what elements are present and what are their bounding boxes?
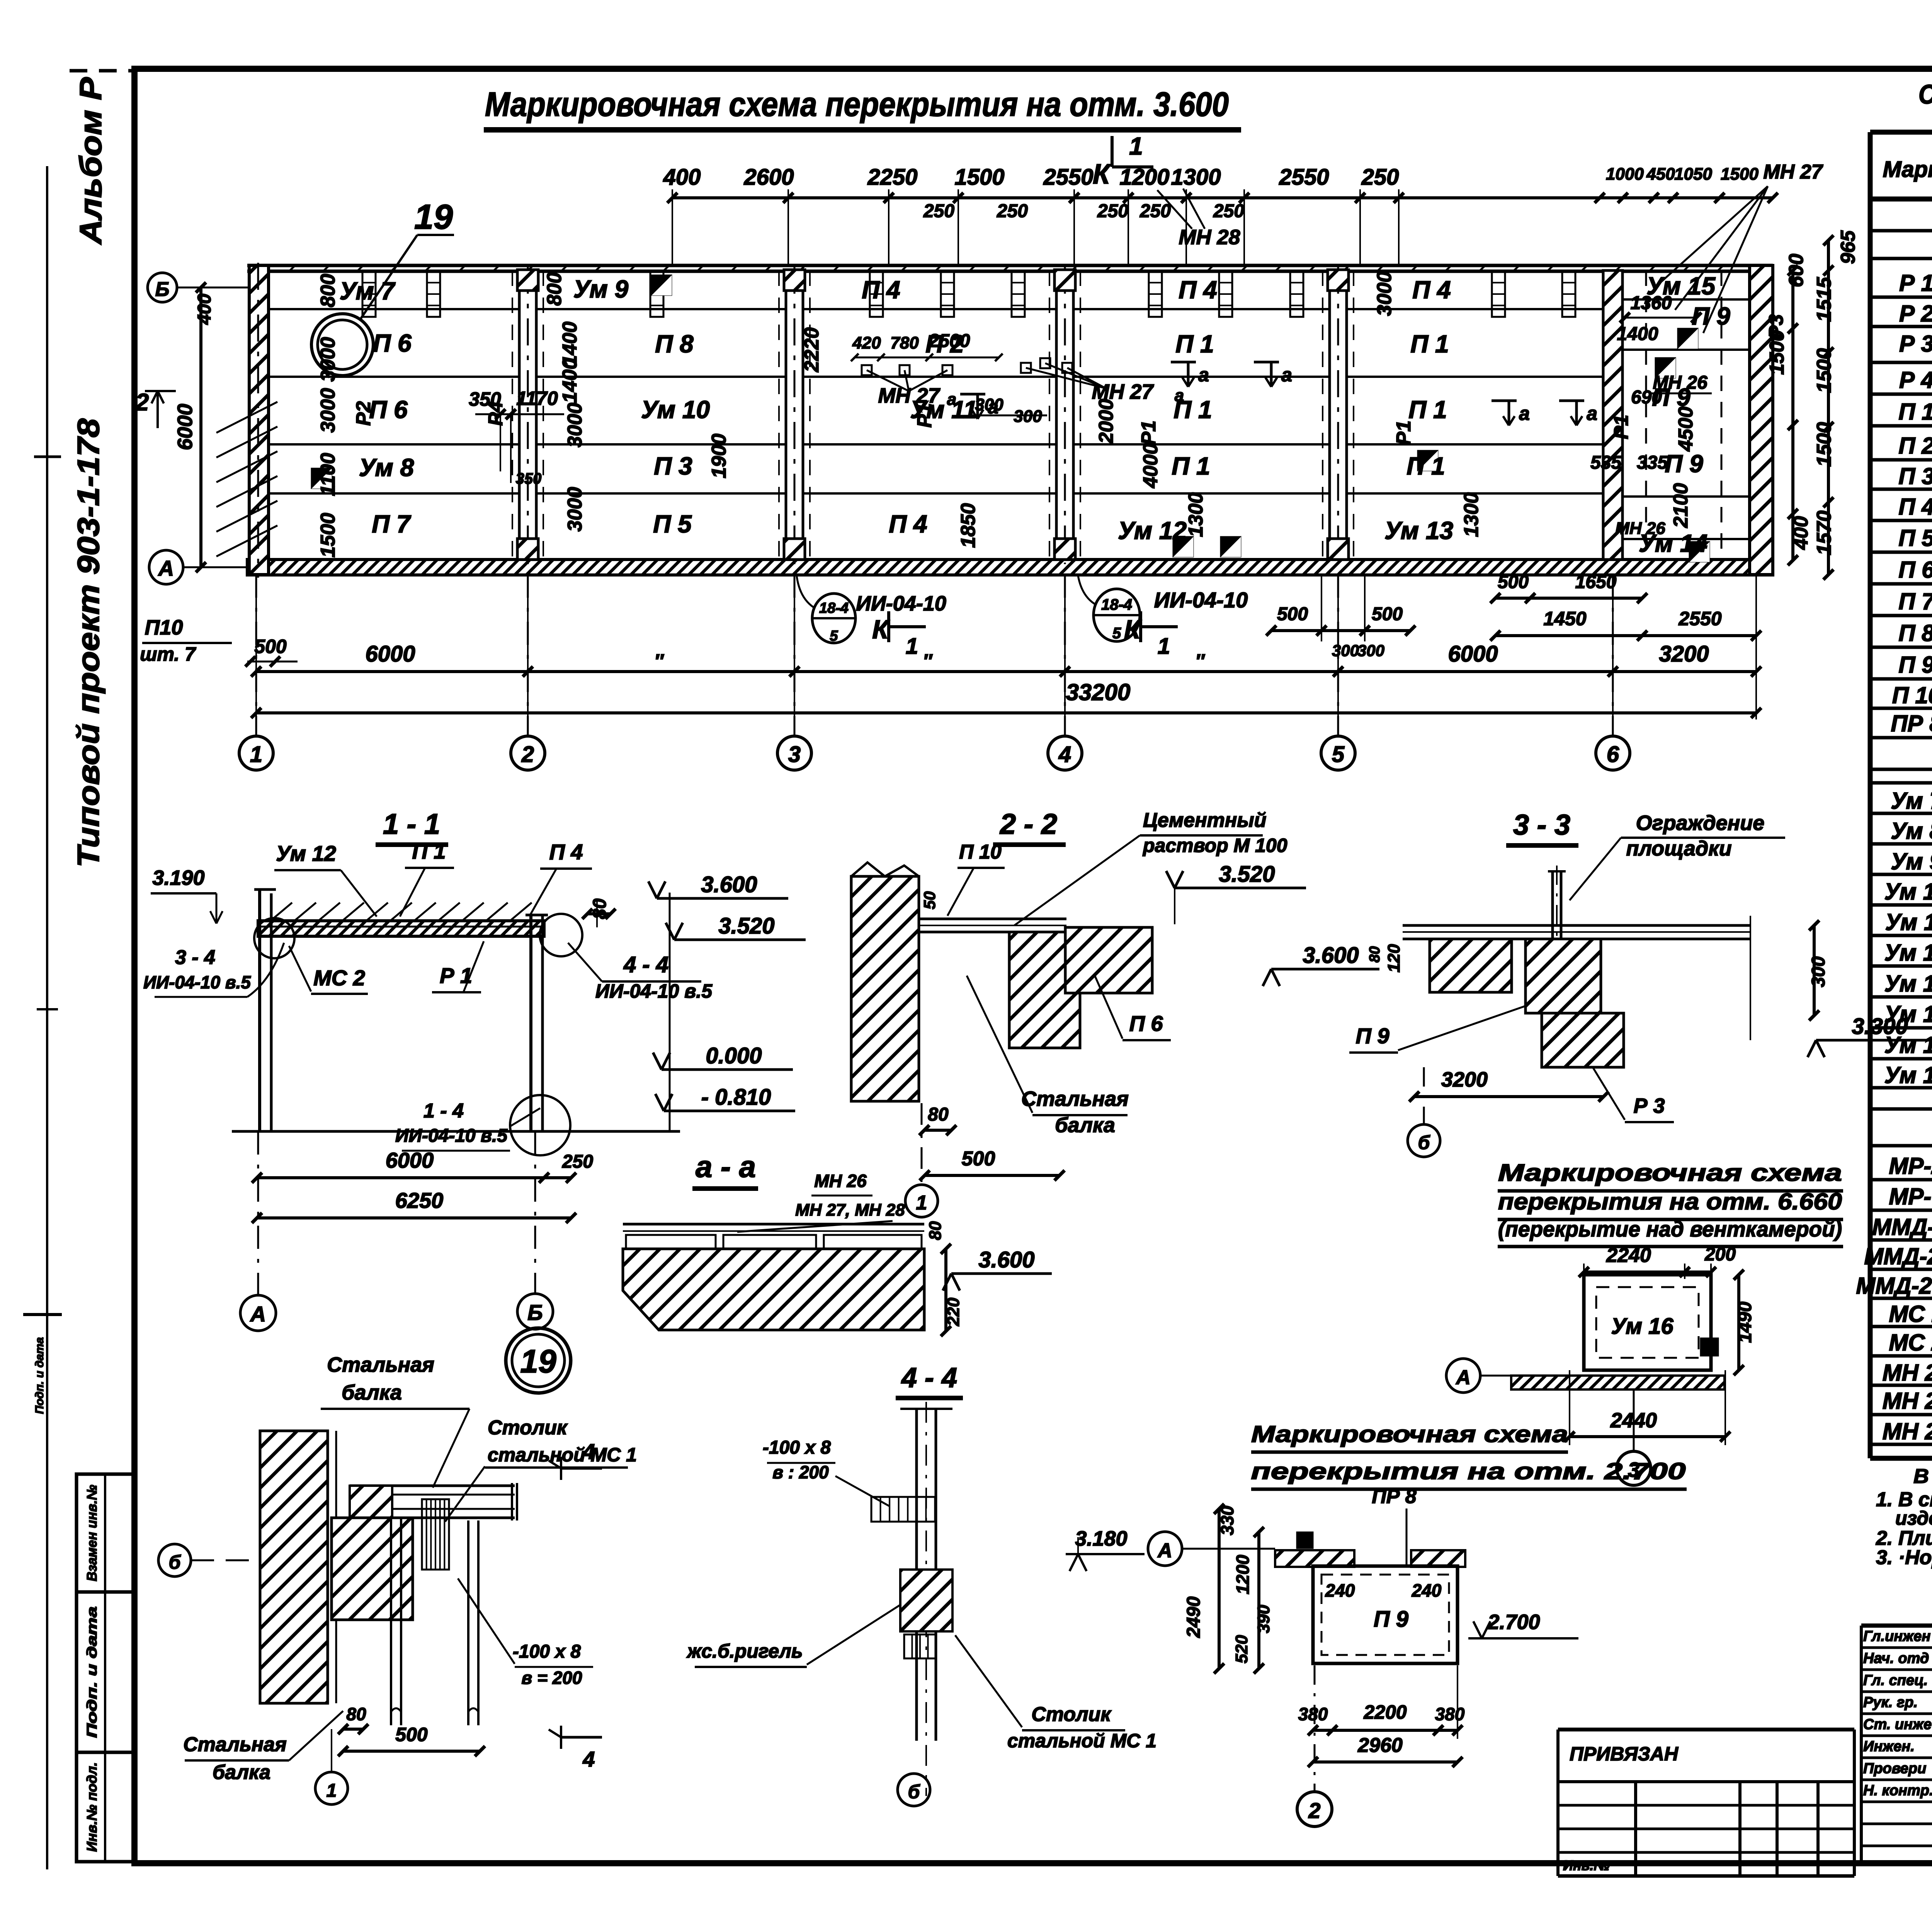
svg-text:350: 350 bbox=[469, 388, 501, 410]
svg-text:Ум 7: Ум 7 bbox=[1891, 788, 1932, 814]
svg-text:2 - 2: 2 - 2 bbox=[999, 808, 1057, 840]
svg-text:МН 26: МН 26 bbox=[814, 1171, 867, 1191]
svg-text:стальной МС 1: стальной МС 1 bbox=[1007, 1730, 1156, 1752]
svg-text:400: 400 bbox=[194, 294, 215, 325]
svg-text:Ум 9: Ум 9 bbox=[573, 275, 629, 303]
svg-text:Р1: Р1 bbox=[1138, 420, 1160, 445]
svg-text:Ум 13: Ум 13 bbox=[1884, 971, 1932, 997]
svg-text:Б: Б bbox=[527, 1300, 543, 1325]
svg-text:Р1: Р1 bbox=[1393, 420, 1415, 445]
svg-text:Типовой проект 903-1-178: Типовой проект 903-1-178 bbox=[71, 418, 105, 867]
svg-text:Ум 12: Ум 12 bbox=[1118, 517, 1187, 544]
svg-text:- 0.810: - 0.810 bbox=[701, 1085, 771, 1110]
svg-text:1300: 1300 bbox=[1185, 492, 1207, 537]
svg-text:6: 6 bbox=[1607, 742, 1619, 767]
svg-text:ИИ-04-10: ИИ-04-10 bbox=[1154, 588, 1248, 612]
svg-text:П 9: П 9 bbox=[1374, 1607, 1408, 1632]
svg-text:33200: 33200 bbox=[1066, 679, 1131, 705]
svg-text:Ограждение: Ограждение bbox=[1636, 811, 1765, 835]
svg-text:350: 350 bbox=[516, 470, 542, 487]
svg-text:Р 3: Р 3 bbox=[1899, 331, 1932, 357]
svg-text:420: 420 bbox=[852, 333, 881, 352]
svg-text:П 9: П 9 bbox=[1356, 1024, 1389, 1048]
svg-text:1500: 1500 bbox=[954, 165, 1004, 190]
svg-text:2600: 2600 bbox=[743, 165, 794, 190]
svg-text:Ум 10: Ум 10 bbox=[641, 396, 710, 423]
svg-text:3.600: 3.600 bbox=[978, 1247, 1034, 1272]
svg-text:1: 1 bbox=[906, 634, 918, 659]
svg-text:780: 780 bbox=[890, 333, 919, 352]
svg-text:П 4: П 4 bbox=[862, 276, 900, 304]
svg-text:б: б bbox=[908, 1781, 921, 1803]
svg-text:240: 240 bbox=[1412, 1580, 1442, 1600]
svg-text:стальной МС 1: стальной МС 1 bbox=[488, 1444, 637, 1466]
svg-text:1500: 1500 bbox=[1813, 422, 1835, 467]
svg-text:в : 200: в : 200 bbox=[772, 1462, 829, 1482]
svg-text:2550: 2550 bbox=[1279, 165, 1329, 190]
svg-text:П 2: П 2 bbox=[1898, 433, 1932, 459]
svg-text:ММД-20Л: ММД-20Л bbox=[1864, 1243, 1932, 1269]
svg-text:4: 4 bbox=[582, 1747, 595, 1771]
svg-text:4000: 4000 bbox=[1139, 443, 1162, 488]
svg-text:0.000: 0.000 bbox=[706, 1043, 762, 1068]
svg-text:300: 300 bbox=[1332, 641, 1359, 660]
svg-text:Н. контр.: Н. контр. bbox=[1863, 1782, 1932, 1799]
svg-text:Стальная: Стальная bbox=[1021, 1087, 1129, 1111]
svg-text:2.700: 2.700 bbox=[1487, 1611, 1540, 1634]
svg-text:Ум 7: Ум 7 bbox=[340, 277, 396, 305]
svg-text:Р 2: Р 2 bbox=[1899, 301, 1932, 327]
svg-text:Ум 16: Ум 16 bbox=[1611, 1314, 1673, 1339]
svg-text:3 - 3: 3 - 3 bbox=[1513, 809, 1570, 841]
svg-text:А: А bbox=[158, 556, 174, 580]
svg-text:2490: 2490 bbox=[1184, 1596, 1204, 1638]
svg-text:Рук. гр.: Рук. гр. bbox=[1863, 1694, 1918, 1711]
svg-text:А: А bbox=[1455, 1366, 1471, 1389]
svg-text:П 1: П 1 bbox=[1172, 452, 1210, 480]
svg-text:а: а bbox=[1175, 386, 1184, 405]
svg-text:800: 800 bbox=[543, 272, 566, 306]
svg-text:ИИ-04-10: ИИ-04-10 bbox=[856, 592, 946, 615]
svg-text:балка: балка bbox=[342, 1381, 402, 1404]
svg-text:Ум 16: Ум 16 bbox=[1884, 1062, 1932, 1088]
svg-text:П 4: П 4 bbox=[1179, 276, 1217, 304]
svg-text:П 6: П 6 bbox=[373, 329, 412, 357]
svg-text:3: 3 bbox=[788, 742, 801, 767]
svg-text:1: 1 bbox=[327, 1781, 337, 1801]
svg-text:3. ·Нормативная нагрузка на: 3. ·Нормативная нагрузка на перекрытие: bbox=[1876, 1546, 1932, 1569]
svg-text:ИИ-04-10 в.5: ИИ-04-10 в.5 bbox=[395, 1126, 508, 1146]
svg-text:П 10: П 10 bbox=[1892, 682, 1932, 708]
svg-text:1850: 1850 bbox=[957, 503, 980, 548]
svg-text:б: б bbox=[169, 1551, 182, 1573]
svg-text:1: 1 bbox=[1129, 132, 1143, 160]
svg-text:Р3: Р3 bbox=[1765, 314, 1787, 339]
svg-text:Б: Б bbox=[155, 278, 170, 301]
svg-text:3000: 3000 bbox=[317, 388, 339, 433]
svg-text:Взамен инв.№: Взамен инв.№ bbox=[84, 1485, 100, 1582]
svg-text:П 8: П 8 bbox=[655, 330, 694, 358]
svg-text:Нач. отд: Нач. отд bbox=[1863, 1650, 1929, 1667]
svg-text:Ум 15: Ум 15 bbox=[1884, 1032, 1932, 1058]
svg-text:80: 80 bbox=[928, 1104, 949, 1125]
svg-text:6000: 6000 bbox=[1448, 641, 1498, 667]
svg-text:Альбом Р: Альбом Р bbox=[73, 77, 108, 245]
svg-text:П 4: П 4 bbox=[1412, 276, 1451, 304]
svg-text:2000: 2000 bbox=[1095, 399, 1117, 444]
svg-text:МН 27: МН 27 bbox=[878, 384, 940, 407]
svg-text:3200: 3200 bbox=[1441, 1068, 1488, 1091]
svg-text:4500: 4500 bbox=[1675, 406, 1697, 452]
svg-text:1400: 1400 bbox=[559, 358, 581, 403]
svg-text:а: а bbox=[947, 390, 956, 409]
svg-text:250: 250 bbox=[923, 201, 954, 221]
svg-text:П 9: П 9 bbox=[1898, 652, 1932, 678]
svg-text:3.180: 3.180 bbox=[1075, 1527, 1127, 1550]
svg-text:Спецификация к маркировочным: Спецификация к маркировочным схемам, рас… bbox=[1918, 79, 1932, 109]
svg-text:3000: 3000 bbox=[564, 487, 586, 532]
svg-text:3.520: 3.520 bbox=[718, 913, 774, 939]
svg-text:МН 26: МН 26 bbox=[1653, 372, 1708, 393]
svg-text:5: 5 bbox=[1112, 625, 1121, 642]
svg-text:а: а bbox=[1198, 364, 1209, 386]
svg-text:″: ″ bbox=[1195, 650, 1205, 672]
svg-text:Гл.инжен: Гл.инжен bbox=[1863, 1628, 1930, 1645]
svg-text:6250: 6250 bbox=[395, 1188, 444, 1213]
svg-text:Цементный: Цементный bbox=[1143, 809, 1266, 832]
svg-text:Ум 11: Ум 11 bbox=[1885, 909, 1932, 935]
svg-text:1200: 1200 bbox=[1233, 1554, 1253, 1594]
svg-text:П 1: П 1 bbox=[1408, 396, 1447, 423]
svg-text:250: 250 bbox=[1139, 201, 1171, 221]
svg-text:П 1: П 1 bbox=[1410, 330, 1449, 358]
svg-text:450: 450 bbox=[1646, 165, 1675, 184]
svg-text:600: 600 bbox=[1785, 254, 1808, 287]
svg-text:Ум 12: Ум 12 bbox=[1884, 940, 1932, 966]
svg-text:Маркировочная схема: Маркировочная схема bbox=[1498, 1160, 1842, 1186]
svg-text:1900: 1900 bbox=[708, 434, 730, 478]
svg-text:19: 19 bbox=[520, 1343, 556, 1379]
svg-text:В спецификации в графе „При: В спецификации в графе „Примечание“ указ… bbox=[1913, 1465, 1932, 1488]
svg-text:1300: 1300 bbox=[1460, 492, 1483, 537]
svg-text:6000: 6000 bbox=[365, 641, 415, 667]
svg-text:Гл. спец.: Гл. спец. bbox=[1863, 1672, 1928, 1689]
svg-text:2240: 2240 bbox=[1606, 1244, 1651, 1267]
svg-text:Р 4: Р 4 bbox=[1899, 367, 1932, 393]
svg-text:2960: 2960 bbox=[1357, 1734, 1403, 1757]
svg-text:18-4: 18-4 bbox=[819, 600, 849, 616]
svg-text:200: 200 bbox=[1704, 1244, 1736, 1265]
svg-text:ИИ-04-10 в.5: ИИ-04-10 в.5 bbox=[595, 980, 713, 1002]
svg-text:Подп. и дата: Подп. и дата bbox=[33, 1337, 46, 1414]
svg-text:А: А bbox=[250, 1302, 266, 1326]
svg-text:1360: 1360 bbox=[1631, 293, 1672, 313]
svg-text:а: а bbox=[1587, 403, 1597, 424]
svg-text:МР-2: МР-2 bbox=[1889, 1153, 1932, 1179]
svg-text:380: 380 bbox=[1435, 1704, 1465, 1724]
svg-text:80: 80 bbox=[346, 1704, 366, 1724]
svg-text:МН 26: МН 26 bbox=[1615, 519, 1665, 538]
svg-text:МС 2: МС 2 bbox=[1889, 1330, 1932, 1355]
svg-text:МС 1: МС 1 bbox=[1889, 1301, 1932, 1327]
svg-text:800: 800 bbox=[317, 274, 339, 308]
svg-text:5: 5 bbox=[1332, 742, 1345, 767]
svg-text:500: 500 bbox=[1372, 604, 1403, 624]
svg-text:ММД-17: ММД-17 bbox=[1872, 1214, 1932, 1240]
svg-text:Стальная: Стальная bbox=[327, 1353, 434, 1376]
svg-text:1 - 1: 1 - 1 bbox=[383, 808, 440, 840]
svg-text:а: а bbox=[1519, 403, 1530, 424]
svg-text:380: 380 bbox=[1298, 1704, 1328, 1724]
svg-text:390: 390 bbox=[1254, 1605, 1273, 1633]
svg-text:120: 120 bbox=[1384, 944, 1403, 973]
svg-text:3.600: 3.600 bbox=[701, 872, 757, 897]
svg-text:перекрытия на отм. 6.660: перекрытия на отм. 6.660 bbox=[1498, 1189, 1842, 1214]
svg-text:Ст. инже: Ст. инже bbox=[1863, 1716, 1932, 1733]
svg-text:535: 535 bbox=[1590, 452, 1622, 473]
svg-text:раствор М 100: раствор М 100 bbox=[1142, 835, 1287, 856]
svg-text:50: 50 bbox=[920, 891, 939, 910]
svg-text:1 - 4: 1 - 4 bbox=[423, 1100, 464, 1122]
svg-text:3.520: 3.520 bbox=[1219, 862, 1275, 887]
svg-text:80: 80 bbox=[1367, 946, 1383, 963]
svg-text:П 3: П 3 bbox=[654, 452, 692, 480]
svg-text:2200: 2200 bbox=[1363, 1701, 1406, 1723]
svg-text:240: 240 bbox=[1325, 1580, 1355, 1600]
svg-text:Маркировочная схема: Маркировочная схема bbox=[1251, 1421, 1568, 1447]
svg-text:площадки: площадки bbox=[1626, 837, 1731, 860]
svg-text:2220: 2220 bbox=[801, 327, 823, 372]
svg-text:2250: 2250 bbox=[867, 165, 917, 190]
svg-text:1: 1 bbox=[1158, 634, 1170, 659]
svg-text:2550: 2550 bbox=[1678, 608, 1721, 629]
svg-text:″: ″ bbox=[923, 650, 933, 672]
svg-text:П 4: П 4 bbox=[549, 840, 583, 864]
svg-text:шт. 7: шт. 7 bbox=[140, 643, 196, 665]
svg-text:а: а bbox=[1281, 364, 1292, 386]
svg-text:2550: 2550 bbox=[1043, 165, 1093, 190]
svg-text:330: 330 bbox=[1217, 1505, 1237, 1535]
svg-text:П 6: П 6 bbox=[369, 396, 408, 423]
svg-text:ПР 8: ПР 8 bbox=[1372, 1485, 1417, 1508]
svg-text:19: 19 bbox=[414, 198, 453, 236]
svg-text:80: 80 bbox=[926, 1221, 945, 1240]
svg-text:250: 250 bbox=[1213, 201, 1244, 221]
svg-text:балка: балка bbox=[213, 1761, 270, 1784]
svg-text:1570: 1570 bbox=[1813, 510, 1835, 555]
svg-text:3000: 3000 bbox=[564, 403, 586, 447]
svg-text:1515: 1515 bbox=[1813, 277, 1835, 322]
svg-text:Р 3: Р 3 bbox=[1633, 1094, 1665, 1117]
svg-text:300: 300 bbox=[1808, 956, 1829, 987]
svg-text:МН 27, МН 28: МН 27, МН 28 bbox=[795, 1201, 905, 1219]
svg-text:Инв.№ подл.: Инв.№ подл. bbox=[84, 1762, 100, 1852]
svg-text:Ум 9: Ум 9 bbox=[1891, 849, 1932, 874]
svg-text:Инжен.: Инжен. bbox=[1863, 1738, 1915, 1755]
svg-text:1000: 1000 bbox=[1606, 165, 1644, 184]
svg-text:Маркировочная схема перекрыт: Маркировочная схема перекрытия на отм. 3… bbox=[485, 85, 1229, 123]
svg-text:ММД-20ПР: ММД-20ПР bbox=[1856, 1273, 1932, 1299]
svg-text:3.600: 3.600 bbox=[1303, 943, 1359, 968]
svg-text:Ум 8: Ум 8 bbox=[1891, 818, 1932, 844]
svg-text:Р1: Р1 bbox=[1610, 415, 1633, 439]
svg-text:3.190: 3.190 bbox=[152, 866, 204, 889]
svg-text:К: К bbox=[872, 615, 890, 644]
svg-text:250: 250 bbox=[1097, 201, 1128, 221]
svg-text:П 8: П 8 bbox=[1898, 620, 1932, 646]
svg-text:П 10: П 10 bbox=[959, 841, 1002, 863]
svg-text:400: 400 bbox=[663, 165, 701, 190]
svg-text:ПРИВЯЗАН: ПРИВЯЗАН bbox=[1570, 1743, 1679, 1765]
svg-text:П 4: П 4 bbox=[889, 510, 927, 538]
svg-text:500: 500 bbox=[1498, 572, 1529, 592]
svg-text:П 4: П 4 bbox=[1898, 494, 1932, 520]
svg-text:Р 1: Р 1 bbox=[1899, 270, 1932, 296]
svg-text:Ум 14: Ум 14 bbox=[1884, 1001, 1932, 1027]
svg-text:1500: 1500 bbox=[317, 513, 339, 558]
svg-text:1500: 1500 bbox=[1721, 165, 1759, 184]
svg-text:П 5: П 5 bbox=[653, 510, 692, 538]
svg-text:П 1: П 1 bbox=[1406, 452, 1445, 480]
svg-text:1050: 1050 bbox=[1674, 165, 1712, 184]
svg-text:П 7: П 7 bbox=[1898, 588, 1932, 614]
svg-text:П 1: П 1 bbox=[412, 839, 446, 863]
svg-text:Ум 13: Ум 13 bbox=[1384, 517, 1453, 544]
svg-text:Ум 8: Ум 8 bbox=[359, 454, 414, 481]
svg-text:П 5: П 5 bbox=[1898, 525, 1932, 551]
svg-text:1450: 1450 bbox=[1543, 608, 1586, 629]
svg-text:МН 27: МН 27 bbox=[1883, 1388, 1932, 1414]
svg-text:4: 4 bbox=[582, 1439, 595, 1464]
svg-text:П 1: П 1 bbox=[1175, 330, 1214, 358]
svg-text:500: 500 bbox=[1277, 604, 1308, 624]
svg-text:-100 x 8: -100 x 8 bbox=[513, 1641, 581, 1662]
svg-text:520: 520 bbox=[1232, 1635, 1251, 1663]
svg-text:жс.б.ригель: жс.б.ригель bbox=[686, 1640, 803, 1662]
svg-text:250: 250 bbox=[1361, 165, 1399, 190]
svg-text:изделия, входящие в монолитн: изделия, входящие в монолитные участки . bbox=[1895, 1507, 1932, 1529]
svg-text:4 - 4: 4 - 4 bbox=[901, 1362, 957, 1393]
svg-text:Стальная: Стальная bbox=[183, 1733, 287, 1756]
svg-text:Р2: Р2 bbox=[352, 401, 375, 426]
svg-text:МН 27: МН 27 bbox=[1092, 380, 1154, 403]
svg-text:250: 250 bbox=[997, 201, 1028, 221]
svg-text:965: 965 bbox=[1837, 230, 1859, 264]
svg-text:б: б bbox=[1418, 1132, 1431, 1153]
svg-text:1170: 1170 bbox=[516, 388, 558, 409]
svg-text:500: 500 bbox=[962, 1148, 995, 1170]
svg-text:250: 250 bbox=[562, 1151, 593, 1172]
svg-text:1300: 1300 bbox=[1171, 165, 1221, 190]
svg-text:П 1: П 1 bbox=[1898, 399, 1932, 425]
svg-text:П 9: П 9 bbox=[1665, 450, 1703, 478]
svg-text:МН 26: МН 26 bbox=[1883, 1360, 1932, 1386]
svg-text:300: 300 bbox=[975, 395, 1003, 414]
svg-text:перекрытия на отм. 2.700: перекрытия на отм. 2.700 bbox=[1251, 1458, 1686, 1484]
svg-text:″: ″ bbox=[654, 650, 664, 672]
svg-text:П10: П10 bbox=[145, 616, 183, 639]
svg-text:П 6: П 6 bbox=[1898, 557, 1932, 583]
svg-text:1100: 1100 bbox=[317, 453, 339, 496]
svg-text:Ум 10: Ум 10 bbox=[1884, 879, 1932, 905]
svg-text:4: 4 bbox=[1058, 742, 1071, 767]
svg-text:(перекрытие над венткамерой): (перекрытие над венткамерой) bbox=[1498, 1217, 1842, 1241]
svg-text:П 7: П 7 bbox=[372, 510, 412, 538]
svg-text:балка: балка bbox=[1055, 1114, 1115, 1137]
svg-text:335: 335 bbox=[1637, 452, 1668, 473]
svg-text:МР-6: МР-6 bbox=[1889, 1184, 1932, 1209]
svg-text:Провери: Провери bbox=[1863, 1760, 1926, 1777]
svg-text:МН 28: МН 28 bbox=[1883, 1418, 1932, 1444]
svg-text:Столик: Столик bbox=[488, 1417, 568, 1439]
svg-text:1490: 1490 bbox=[1735, 1301, 1755, 1343]
svg-text:2: 2 bbox=[1308, 1798, 1320, 1823]
svg-text:П 6: П 6 bbox=[1129, 1011, 1163, 1036]
svg-text:ИИ-04-10 в.5: ИИ-04-10 в.5 bbox=[143, 972, 251, 992]
svg-text:МН 28: МН 28 bbox=[1179, 226, 1240, 249]
svg-text:2500: 2500 bbox=[929, 331, 970, 351]
svg-text:3 - 4: 3 - 4 bbox=[175, 946, 215, 969]
svg-text:1650: 1650 bbox=[1575, 572, 1617, 592]
svg-text:1: 1 bbox=[916, 1192, 927, 1214]
svg-text:-100 x 8: -100 x 8 bbox=[763, 1437, 831, 1458]
svg-text:МС 2: МС 2 bbox=[313, 966, 365, 990]
svg-text:18-4: 18-4 bbox=[1101, 596, 1132, 613]
svg-text:Инв.№: Инв.№ bbox=[1563, 1857, 1610, 1873]
svg-text:Подп. и дата: Подп. и дата bbox=[84, 1607, 100, 1738]
svg-text:в = 200: в = 200 bbox=[522, 1668, 582, 1688]
svg-text:2: 2 bbox=[521, 742, 534, 767]
svg-text:К: К bbox=[1093, 159, 1112, 190]
svg-text:500: 500 bbox=[395, 1724, 428, 1745]
svg-text:500: 500 bbox=[254, 636, 287, 657]
svg-text:Столик: Столик bbox=[1031, 1703, 1112, 1726]
svg-text:3000: 3000 bbox=[1373, 271, 1396, 316]
svg-text:а - а: а - а bbox=[696, 1150, 756, 1184]
svg-text:5: 5 bbox=[830, 628, 838, 644]
svg-text:ПР 8: ПР 8 bbox=[1891, 711, 1932, 736]
svg-text:Ум 12: Ум 12 bbox=[276, 841, 336, 866]
svg-text:МН 27: МН 27 bbox=[1763, 161, 1823, 183]
svg-text:4 - 4: 4 - 4 bbox=[623, 952, 668, 977]
svg-text:1400: 1400 bbox=[1617, 324, 1658, 344]
svg-text:А: А bbox=[1157, 1539, 1172, 1562]
svg-text:6000: 6000 bbox=[173, 404, 197, 450]
svg-text:300: 300 bbox=[1357, 641, 1384, 660]
svg-text:2: 2 bbox=[135, 389, 149, 416]
svg-text:Марка: Марка bbox=[1883, 157, 1932, 182]
svg-text:П 3: П 3 bbox=[1898, 463, 1932, 489]
svg-text:2100: 2100 bbox=[1670, 483, 1692, 528]
svg-text:3200: 3200 bbox=[1659, 641, 1709, 667]
svg-text:1: 1 bbox=[250, 742, 262, 767]
